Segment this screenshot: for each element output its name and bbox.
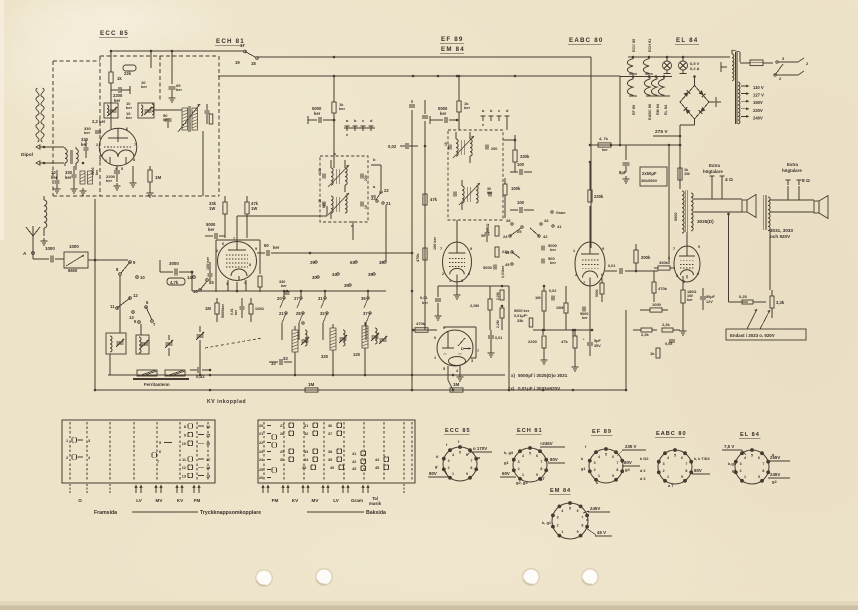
svg-text:28: 28 bbox=[280, 432, 284, 436]
switch 13 bbox=[132, 311, 135, 314]
mains plug bbox=[798, 58, 804, 62]
svg-text:7: 7 bbox=[134, 143, 136, 147]
wire ECH81 anode bbox=[236, 228, 238, 242]
svg-text:32: 32 bbox=[304, 432, 308, 436]
svg-text:2: 2 bbox=[594, 468, 596, 472]
heater ECH81 bbox=[643, 57, 649, 74]
svg-text:4 Ω: 4 Ω bbox=[725, 177, 733, 183]
osc coil group 1 bbox=[292, 330, 298, 352]
triode EABC80 bbox=[575, 242, 605, 286]
svg-text:5000: 5000 bbox=[595, 289, 599, 297]
svg-text:0,01: 0,01 bbox=[495, 336, 502, 340]
svg-text:2,2 ker: 2,2 ker bbox=[92, 119, 106, 124]
svg-text:EM 84: EM 84 bbox=[656, 103, 660, 115]
svg-text:9: 9 bbox=[612, 474, 614, 478]
svg-text:40: 40 bbox=[330, 466, 334, 470]
svg-text:3,3k: 3,3k bbox=[776, 300, 785, 305]
svg-text:6: 6 bbox=[468, 272, 470, 276]
resistor 3,3k bbox=[770, 296, 774, 308]
svg-text:g': g' bbox=[435, 465, 438, 469]
svg-text:2: 2 bbox=[216, 249, 218, 253]
svg-text:7: 7 bbox=[440, 247, 442, 251]
svg-text:100Ω: 100Ω bbox=[255, 307, 264, 311]
svg-text:1W: 1W bbox=[684, 172, 690, 176]
svg-text:ker: ker bbox=[65, 175, 72, 180]
svg-text:21: 21 bbox=[279, 311, 284, 316]
wire sw to coil bbox=[119, 275, 121, 296]
svg-text:ker: ker bbox=[687, 298, 693, 302]
svg-text:5000ker: 5000ker bbox=[221, 303, 225, 318]
svg-text:2200: 2200 bbox=[528, 339, 538, 344]
wire det out bbox=[504, 202, 506, 218]
svg-text:6: 6 bbox=[697, 272, 699, 276]
svg-text:0,25: 0,25 bbox=[739, 294, 748, 299]
wire band mid bbox=[159, 260, 161, 272]
resistor 4,7k box bbox=[167, 278, 185, 285]
svg-text:22: 22 bbox=[259, 441, 263, 445]
socket EABC80 bbox=[658, 450, 692, 484]
svg-text:1000: 1000 bbox=[45, 246, 55, 251]
svg-text:7: 7 bbox=[477, 349, 479, 353]
svg-text:330k: 330k bbox=[520, 154, 530, 159]
switch unit box 1 bbox=[62, 420, 215, 483]
svg-text:16: 16 bbox=[193, 289, 198, 294]
svg-text:5000pf i 3025(D)o 3031: 5000pf i 3025(D)o 3031 bbox=[518, 373, 568, 378]
switch cluster 44 45 bbox=[511, 251, 513, 253]
svg-text:3: 3 bbox=[594, 461, 596, 465]
svg-text:220: 220 bbox=[364, 175, 368, 181]
wire bottom bus bbox=[95, 389, 626, 391]
svg-text:7: 7 bbox=[470, 459, 472, 463]
svg-text:g3: g3 bbox=[625, 467, 630, 472]
svg-text:1000: 1000 bbox=[652, 302, 662, 307]
svg-text:g1: g1 bbox=[732, 468, 737, 473]
svg-text:högtalare: högtalare bbox=[782, 168, 802, 173]
mains switch bbox=[776, 61, 778, 63]
transformer taps bbox=[741, 85, 748, 87]
svg-text:16: 16 bbox=[206, 442, 210, 446]
svg-text:EABC 80: EABC 80 bbox=[569, 37, 604, 44]
svg-text:k': k' bbox=[436, 455, 439, 459]
svg-text:39: 39 bbox=[328, 458, 332, 462]
svg-text:Baksida: Baksida bbox=[366, 510, 386, 516]
svg-text:27: 27 bbox=[280, 424, 284, 428]
svg-text:6: 6 bbox=[536, 454, 538, 458]
svg-text:18: 18 bbox=[251, 61, 256, 66]
wire rail291 left ext bbox=[191, 282, 193, 291]
svg-text:LV: LV bbox=[333, 498, 339, 503]
grid cap 2200 ker ECC85 bbox=[95, 130, 101, 132]
svg-text:1M: 1M bbox=[535, 295, 541, 300]
svg-text:ECC 85: ECC 85 bbox=[100, 30, 129, 37]
svg-text:5: 5 bbox=[121, 167, 123, 171]
capacitor 100 det bbox=[519, 169, 521, 175]
capacitor 0,05 EL bbox=[669, 339, 675, 341]
svg-text:37: 37 bbox=[363, 311, 368, 316]
svg-text:5: 5 bbox=[605, 453, 607, 457]
svg-text:7: 7 bbox=[581, 515, 583, 519]
svg-text:ker: ker bbox=[106, 178, 112, 183]
resistor 200k EL84 grid bbox=[634, 250, 638, 263]
capacitor AVC top bbox=[422, 115, 428, 117]
svg-text:g1: g1 bbox=[504, 460, 509, 465]
wire EF89 cathode bbox=[456, 277, 458, 292]
svg-text:6600: 6600 bbox=[68, 268, 78, 273]
capacitor 0,01 coupling bbox=[619, 268, 621, 274]
svg-text:240V: 240V bbox=[753, 115, 763, 120]
svg-text:2,2M: 2,2M bbox=[496, 292, 500, 300]
ground det a bbox=[490, 350, 492, 353]
svg-text:4, 7k: 4, 7k bbox=[599, 136, 609, 141]
svg-text:9: 9 bbox=[184, 434, 186, 438]
dipole feeder twisted pair bbox=[41, 88, 44, 97]
svg-text:80V: 80V bbox=[624, 460, 632, 465]
svg-text:Gram: Gram bbox=[351, 498, 363, 503]
svg-text:k, k T/D3: k, k T/D3 bbox=[694, 457, 710, 461]
resistor 1M ECC85 bbox=[148, 170, 152, 182]
wire top rail FM bbox=[111, 50, 244, 52]
svg-text:O: O bbox=[78, 498, 82, 503]
wire OPT to speaker1 bbox=[694, 198, 742, 200]
svg-text:8: 8 bbox=[470, 466, 472, 470]
coil 1000 ant bbox=[80, 171, 85, 184]
svg-text:8: 8 bbox=[184, 425, 186, 429]
paper washes bbox=[580, 0, 858, 610]
switch lever 8 bbox=[121, 262, 130, 273]
resistor 47k det bbox=[573, 336, 577, 348]
svg-text:4: 4 bbox=[522, 454, 524, 458]
wire contact rail 291 bbox=[238, 290, 386, 292]
resistor 33k 1W bbox=[223, 202, 227, 214]
svg-text:31: 31 bbox=[304, 424, 308, 428]
resistor 100ohm ECH bbox=[249, 304, 253, 314]
svg-text:9: 9 bbox=[536, 473, 538, 477]
socket EF89 bbox=[589, 449, 623, 483]
switch cluster 24 25 28 43 42 bbox=[511, 223, 513, 225]
svg-text:220Ω: 220Ω bbox=[486, 224, 490, 233]
svg-text:470k: 470k bbox=[416, 321, 426, 326]
switch 14 bbox=[193, 276, 196, 279]
svg-text:ker: ker bbox=[550, 260, 556, 265]
electrolytic 2x50uF bbox=[640, 167, 667, 186]
svg-text:Endast i 3033 o. 920V: Endast i 3033 o. 920V bbox=[730, 333, 775, 338]
svg-text:0,05: 0,05 bbox=[665, 342, 672, 346]
svg-text:1M: 1M bbox=[205, 306, 211, 311]
svg-text:5: 5 bbox=[159, 441, 161, 445]
output transformer 3025 bbox=[682, 191, 684, 233]
svg-text:EABC 80: EABC 80 bbox=[656, 431, 687, 437]
ferrite rod bbox=[137, 370, 157, 376]
dashed FM unit box outer bbox=[53, 60, 100, 62]
resistor 100k det bbox=[503, 184, 507, 195]
svg-text:ker: ker bbox=[602, 148, 608, 152]
ground EL84 bbox=[682, 328, 684, 331]
switch 6 bbox=[145, 306, 148, 309]
svg-text:≈245V: ≈245V bbox=[540, 441, 553, 446]
socket ECC85 bbox=[443, 447, 477, 481]
resistor 10M bbox=[564, 303, 568, 313]
switch 7 bbox=[146, 307, 152, 320]
EM84 electrode loop bbox=[444, 326, 476, 328]
svg-text:275 V: 275 V bbox=[655, 129, 668, 135]
svg-text:ECH 81: ECH 81 bbox=[517, 428, 543, 434]
wire EF89 anode bbox=[456, 220, 458, 247]
svg-text:24: 24 bbox=[503, 234, 508, 239]
resistor 0,25 bbox=[728, 214, 730, 302]
svg-text:200k: 200k bbox=[641, 255, 651, 260]
wire bridge bottom to HT bbox=[680, 124, 695, 126]
capacitor 330 ker ant bbox=[84, 147, 89, 149]
punch hole at 324 bbox=[315, 568, 333, 586]
wire coil3 down bbox=[364, 348, 366, 375]
svg-text:1k: 1k bbox=[650, 351, 655, 356]
wire abcd2 down bbox=[506, 121, 508, 130]
antenna input transformer bbox=[65, 149, 67, 163]
resistor 1k EL bbox=[656, 348, 660, 358]
svg-text:5000: 5000 bbox=[483, 265, 493, 270]
svg-text:d 3: d 3 bbox=[640, 477, 646, 481]
svg-text:5μF: 5μF bbox=[594, 339, 601, 343]
band switch contacts upper row bbox=[315, 261, 317, 263]
svg-text:och 920V: och 920V bbox=[770, 234, 791, 239]
svg-text:26: 26 bbox=[259, 476, 263, 480]
svg-text:EF 89: EF 89 bbox=[632, 105, 636, 115]
svg-text:45: 45 bbox=[505, 262, 510, 267]
svg-text:9: 9 bbox=[470, 247, 472, 251]
svg-text:9: 9 bbox=[255, 247, 257, 251]
svg-text:80V: 80V bbox=[429, 471, 437, 476]
svg-text:37: 37 bbox=[328, 432, 332, 436]
svg-text:1k: 1k bbox=[117, 76, 122, 81]
capacitor 330 ant2 bbox=[72, 174, 77, 176]
svg-text:o 170V: o 170V bbox=[473, 446, 487, 451]
svg-text:100: 100 bbox=[318, 168, 322, 174]
ground det b bbox=[543, 357, 545, 360]
svg-text:ker: ker bbox=[422, 300, 428, 305]
svg-text:470k: 470k bbox=[416, 253, 420, 262]
capacitor mains T bbox=[722, 66, 726, 68]
coil 2200 ant bbox=[88, 171, 93, 184]
heater EM84 bbox=[651, 77, 657, 96]
punch hole at 590 bbox=[581, 568, 599, 586]
resistor 470k AVC bbox=[423, 248, 427, 260]
wire resistors join ECH bbox=[224, 222, 226, 238]
svg-text:3031, 3033: 3031, 3033 bbox=[770, 228, 793, 233]
svg-text:18: 18 bbox=[206, 466, 210, 470]
svg-text:21: 21 bbox=[259, 432, 263, 436]
svg-text:100k: 100k bbox=[511, 186, 521, 191]
svg-text:110 V: 110 V bbox=[753, 85, 764, 90]
svg-text:220V: 220V bbox=[753, 108, 763, 113]
svg-text:6: 6 bbox=[159, 450, 161, 454]
svg-text:0,02: 0,02 bbox=[549, 289, 556, 293]
svg-text:2,2k: 2,2k bbox=[662, 322, 671, 327]
svg-text:0,2 A: 0,2 A bbox=[690, 66, 700, 71]
svg-text:15: 15 bbox=[206, 434, 210, 438]
wire EL84 grid feed bbox=[668, 145, 670, 264]
tank circuit FM 2 bbox=[138, 103, 154, 118]
svg-text:29: 29 bbox=[280, 450, 284, 454]
svg-text:FM: FM bbox=[272, 498, 279, 503]
svg-text:ker: ker bbox=[281, 284, 287, 288]
svg-text:2: 2 bbox=[442, 272, 444, 276]
svg-text:235 V: 235 V bbox=[625, 444, 637, 449]
svg-text:19: 19 bbox=[235, 60, 240, 65]
svg-text:8: 8 bbox=[540, 467, 542, 471]
switch unit box 2 bbox=[258, 420, 415, 483]
svg-text:33: 33 bbox=[304, 450, 308, 454]
capacitor 2200 ker FM bbox=[118, 87, 120, 93]
svg-text:ECC 85: ECC 85 bbox=[445, 428, 471, 434]
svg-text:4: 4 bbox=[667, 456, 669, 460]
svg-text:ker: ker bbox=[550, 247, 556, 252]
svg-text:7: 7 bbox=[685, 462, 687, 466]
svg-text:6: 6 bbox=[612, 455, 614, 459]
wire EABC80 down bbox=[589, 278, 591, 330]
svg-text:8 Ω: 8 Ω bbox=[802, 178, 810, 184]
socket ECH81 bbox=[513, 448, 547, 482]
svg-text:60V: 60V bbox=[502, 471, 510, 476]
svg-text:0,01μF i 3033o920V: 0,01μF i 3033o920V bbox=[518, 386, 561, 391]
resistor 1000 mid bbox=[650, 308, 662, 312]
ground EM84 b bbox=[437, 313, 439, 316]
svg-text:10: 10 bbox=[444, 142, 448, 146]
svg-text:3025(D): 3025(D) bbox=[697, 219, 714, 224]
svg-text:g1: g1 bbox=[581, 467, 585, 471]
IF2 transformer lower bbox=[462, 186, 464, 203]
svg-text:6: 6 bbox=[126, 127, 128, 131]
pentode EF89 bbox=[443, 242, 472, 282]
svg-text:3: 3 bbox=[461, 279, 463, 283]
power transformer secondary bbox=[738, 82, 740, 124]
svg-text:12: 12 bbox=[182, 466, 186, 470]
wire ECH81 to rail bbox=[236, 282, 238, 291]
choke coil left bbox=[44, 200, 47, 228]
pentode EL84 bbox=[674, 246, 700, 282]
svg-text:1: 1 bbox=[66, 439, 68, 443]
svg-text:1: 1 bbox=[667, 475, 669, 479]
ground ECC85 mid bbox=[132, 166, 134, 180]
left edge light strip bbox=[0, 0, 4, 240]
svg-text:g2: g2 bbox=[772, 479, 777, 484]
capacitor 8uF bbox=[625, 145, 627, 160]
electrolytic 50uF 12V bbox=[700, 296, 706, 298]
wire IF1 to contacts bbox=[371, 164, 381, 166]
svg-text:100 ker: 100 ker bbox=[433, 236, 437, 250]
svg-text:KV: KV bbox=[292, 498, 299, 503]
resistor 4,7k ker feed bbox=[598, 143, 611, 147]
svg-text:7: 7 bbox=[540, 460, 542, 464]
ground EF89 bbox=[456, 292, 458, 295]
svg-text:LV: LV bbox=[136, 498, 142, 503]
wire EM84 down bbox=[447, 366, 449, 380]
switch 12 bbox=[129, 297, 132, 300]
resistor 1k ker mid bbox=[332, 102, 336, 113]
resistor 330k EL bbox=[658, 266, 670, 270]
svg-text:5: 5 bbox=[529, 452, 531, 456]
svg-text:27: 27 bbox=[294, 296, 299, 301]
svg-text:ker: ker bbox=[440, 111, 447, 116]
capacitor 10 ker ant bbox=[55, 180, 60, 182]
resistor 220k EABC bbox=[588, 190, 592, 202]
switch 11 bbox=[116, 307, 119, 310]
svg-text:ECC 85: ECC 85 bbox=[632, 39, 636, 52]
svg-text:35V: 35V bbox=[594, 344, 601, 348]
svg-text:12V: 12V bbox=[706, 300, 713, 304]
junction dots bus2 bbox=[333, 75, 336, 78]
resistor 1k 1W HT bbox=[678, 168, 682, 180]
svg-text:245V: 245V bbox=[590, 506, 600, 511]
punch hole at 264 bbox=[255, 569, 273, 587]
svg-text:5: 5 bbox=[459, 451, 461, 455]
svg-text:EL 84: EL 84 bbox=[664, 104, 668, 115]
svg-text:1W: 1W bbox=[251, 206, 257, 211]
svg-text:150V: 150V bbox=[753, 100, 763, 105]
svg-text:12: 12 bbox=[133, 293, 138, 298]
svg-text:7: 7 bbox=[762, 462, 764, 466]
svg-text:50μF: 50μF bbox=[706, 295, 716, 299]
switch 5 bbox=[138, 321, 141, 324]
capacitor 33 osc bbox=[279, 359, 281, 365]
svg-text:30: 30 bbox=[280, 458, 284, 462]
svg-text:0,01: 0,01 bbox=[608, 264, 615, 268]
svg-text:Tryckknappsomkopplare: Tryckknappsomkopplare bbox=[200, 510, 261, 516]
dashed IF1 box bbox=[320, 156, 368, 222]
svg-text:2: 2 bbox=[96, 143, 98, 147]
svg-text:320: 320 bbox=[321, 354, 329, 359]
svg-text:9: 9 bbox=[577, 530, 579, 534]
svg-text:Gram: Gram bbox=[556, 211, 565, 215]
ECH81 wire box bbox=[216, 239, 260, 241]
svg-text:8: 8 bbox=[581, 524, 583, 528]
svg-text:k D2: k D2 bbox=[640, 456, 649, 461]
svg-text:ker: ker bbox=[322, 202, 326, 208]
svg-text:KV: KV bbox=[177, 498, 184, 503]
IF1 transformer upper bbox=[331, 168, 333, 185]
wire IF1 e down bbox=[352, 221, 354, 240]
svg-text:3: 3 bbox=[676, 274, 678, 278]
fuse bbox=[740, 62, 750, 64]
svg-text:23: 23 bbox=[259, 450, 263, 454]
svg-text:ker: ker bbox=[81, 142, 88, 147]
ground EM84 a bbox=[459, 374, 461, 377]
svg-text:6: 6 bbox=[601, 273, 603, 277]
pentode ECH81 bbox=[218, 242, 257, 281]
svg-text:d 2: d 2 bbox=[640, 469, 646, 473]
svg-text:Framsida: Framsida bbox=[94, 510, 117, 516]
svg-text:3: 3 bbox=[471, 359, 473, 363]
wire EABC anode out bbox=[605, 270, 617, 272]
resistor 2,2k a bbox=[641, 328, 652, 332]
svg-text:8: 8 bbox=[249, 263, 251, 267]
contact Gram upper bbox=[551, 211, 553, 213]
svg-text:'''': '''' bbox=[443, 353, 447, 357]
svg-text:7: 7 bbox=[673, 247, 675, 251]
svg-text:47k: 47k bbox=[430, 197, 438, 202]
svg-text:47k: 47k bbox=[561, 339, 568, 344]
svg-text:7,5 V: 7,5 V bbox=[724, 444, 734, 449]
svg-text:8: 8 bbox=[133, 158, 135, 162]
svg-text:EL 84: EL 84 bbox=[740, 432, 760, 438]
wire IF1 vertical feed bbox=[333, 113, 335, 168]
svg-text:35: 35 bbox=[344, 283, 349, 288]
heater EF89 bbox=[627, 77, 633, 96]
svg-text:34: 34 bbox=[332, 272, 337, 277]
svg-text:1: 1 bbox=[434, 356, 436, 360]
capacitor 2200 ker k bbox=[114, 170, 120, 172]
junction dots misc bbox=[333, 56, 336, 59]
svg-text:1000: 1000 bbox=[69, 244, 79, 249]
